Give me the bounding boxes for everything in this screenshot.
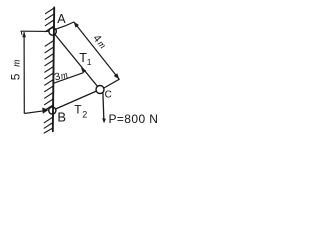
svg-text:C: C (105, 90, 112, 101)
wire: 3m leader from wall to cable (53, 73, 83, 84)
svg-text:A: A (57, 12, 66, 26)
dim 5m extension line at A level (21, 30, 49, 32)
dim 5m vertical line (23, 33, 25, 114)
svg-text:1: 1 (87, 57, 92, 67)
member AC (cable T1) (55, 34, 98, 86)
force P line (102, 92, 105, 118)
arrowhead P down (102, 118, 106, 123)
svg-text:T: T (74, 103, 82, 117)
svg-text:P=800 N: P=800 N (109, 112, 159, 126)
wall hatching (44, 8, 54, 133)
svg-text:5m: 5m (8, 53, 22, 80)
pin A (49, 28, 56, 35)
wire: leader from A to 4m dimension (56, 22, 74, 29)
wire: leader from 4m dimension to C (104, 79, 119, 88)
node C (96, 86, 104, 94)
arrowhead T1 on cable (81, 68, 86, 74)
pin B (49, 107, 56, 114)
dim 4m line (74, 22, 119, 79)
wall (53, 8, 54, 132)
svg-text:B: B (57, 110, 66, 125)
dim 5m bottom leader to B (24, 111, 44, 114)
arrowhead 4m upper (74, 22, 79, 28)
arrowhead 4m lower (114, 73, 120, 79)
arrowhead 5m leader at B (42, 108, 48, 114)
tick at left end of extension (20, 31, 23, 34)
member BC (strut T2) (56, 91, 97, 109)
svg-text:2: 2 (82, 109, 87, 119)
arrowhead 5m up (22, 32, 26, 38)
